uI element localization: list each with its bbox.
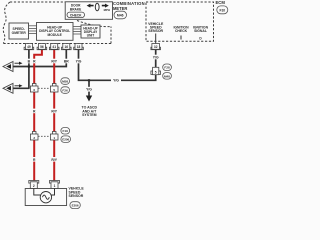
combination meter outline xyxy=(3,2,111,44)
connector F26 xyxy=(61,87,70,94)
wire label Y/G top xyxy=(75,59,83,64)
svg-text:E206: E206 xyxy=(62,138,69,142)
page connector arrow 2 xyxy=(3,83,13,93)
dashed link lower junction xyxy=(38,135,50,137)
wire label BR xyxy=(63,59,69,64)
svg-text:METER: METER xyxy=(113,6,127,11)
sensor pin 2 xyxy=(29,181,39,189)
svg-text:R/Y: R/Y xyxy=(51,158,57,162)
svg-text:41: 41 xyxy=(52,45,56,49)
svg-text:OMETER: OMETER xyxy=(12,31,27,35)
svg-text:6: 6 xyxy=(33,88,35,92)
wire R lower xyxy=(33,140,35,182)
svg-text:M46: M46 xyxy=(117,14,124,18)
wire label R/Y low xyxy=(50,157,58,162)
svg-text:E206: E206 xyxy=(72,204,79,208)
svg-text:32: 32 xyxy=(154,45,158,49)
svg-text:56: 56 xyxy=(40,45,44,49)
svg-text:1: 1 xyxy=(53,136,55,140)
head-up display control module xyxy=(37,23,74,41)
svg-text:BRAKE: BRAKE xyxy=(70,7,81,11)
sensor symbol xyxy=(40,192,51,203)
vehicle speed sensor label xyxy=(69,187,85,199)
junction connector R upper xyxy=(30,84,38,93)
ECM ignition check label xyxy=(173,25,189,32)
junction connector R/Y upper xyxy=(50,84,58,93)
wire label Y/G ecm xyxy=(152,55,160,60)
page connector arrow 1 xyxy=(3,62,13,72)
meter pin 56 xyxy=(37,44,47,50)
svg-text:Y/G: Y/G xyxy=(86,88,92,92)
svg-text:SYSTEM: SYSTEM xyxy=(82,113,96,117)
wire label Y/G branch xyxy=(85,87,93,92)
svg-text:F28: F28 xyxy=(164,66,170,70)
svg-text:UNIT: UNIT xyxy=(87,33,94,37)
svg-text:5: 5 xyxy=(53,88,55,92)
svg-text:BR: BR xyxy=(64,59,69,63)
inline connector ECM wire xyxy=(151,67,161,74)
meter pin 41 xyxy=(49,44,59,50)
svg-text:SIGNAL: SIGNAL xyxy=(194,29,207,33)
wire R/Y upper xyxy=(53,50,55,132)
dashed link upper junction xyxy=(38,87,50,89)
svg-text:2: 2 xyxy=(33,184,35,188)
ECM ignition signal label xyxy=(193,25,209,32)
connector E206 sensor xyxy=(70,202,80,209)
head-up display unit xyxy=(81,25,100,38)
ECM vss stub xyxy=(155,34,157,42)
svg-text:SENSOR: SENSOR xyxy=(69,194,84,198)
connector F28 xyxy=(163,64,172,71)
svg-text:CHECK: CHECK xyxy=(70,14,82,18)
svg-text:Y/G: Y/G xyxy=(76,59,82,63)
meter pin 18 xyxy=(74,44,84,50)
bus wires speedometer to control module xyxy=(29,26,37,34)
svg-text:Y/G: Y/G xyxy=(113,79,119,83)
svg-text:R/Y: R/Y xyxy=(51,109,57,113)
wire R/Y lower xyxy=(53,140,55,182)
wire label R mid xyxy=(32,109,37,114)
svg-text:MPH: MPH xyxy=(104,8,110,12)
meter pin 49 xyxy=(24,44,34,50)
wire label R low xyxy=(32,157,37,162)
svg-text:2: 2 xyxy=(33,136,35,140)
junction dot Y/G xyxy=(88,79,90,81)
wire Y/G branch to ASCD xyxy=(88,80,90,96)
to ASCD label xyxy=(82,106,98,118)
connector E206 xyxy=(61,136,71,143)
wire R upper xyxy=(34,50,42,132)
ECM box xyxy=(146,2,214,41)
connector M48 xyxy=(163,73,172,80)
wire label Y/G horizontal xyxy=(111,78,121,84)
junction dot B/BR xyxy=(28,65,30,67)
svg-text:F26: F26 xyxy=(62,89,68,93)
wire label R/Y top xyxy=(50,59,58,64)
wire BR to arrow line xyxy=(12,50,66,67)
sensor internal wires xyxy=(34,189,41,196)
svg-text:M58: M58 xyxy=(62,80,68,84)
connector F10 xyxy=(217,6,228,14)
svg-text:R/Y: R/Y xyxy=(51,59,57,63)
svg-text:5: 5 xyxy=(155,70,157,74)
connector F19 xyxy=(61,128,70,135)
turn indicator right arrow xyxy=(102,4,109,8)
direction arrow 1 xyxy=(15,62,20,64)
turn indicator left arrow xyxy=(87,4,94,8)
arrow2 line xyxy=(12,87,29,89)
wire label R/Y mid xyxy=(50,109,58,114)
vehicle speed sensor box xyxy=(25,189,66,206)
wire B xyxy=(28,50,30,89)
speedometer xyxy=(9,23,29,39)
svg-text:18: 18 xyxy=(77,45,81,49)
svg-text:M48: M48 xyxy=(164,74,170,78)
connector M58 xyxy=(61,78,70,85)
connector M46 xyxy=(114,11,127,19)
head-up display projection box xyxy=(65,2,112,20)
speed digit 0 xyxy=(95,3,99,11)
direction arrow 2 xyxy=(15,85,20,87)
meter pin 16 xyxy=(62,44,72,50)
sensor pin 1 xyxy=(50,181,60,189)
ECM vehicle speed sensor label xyxy=(148,22,164,33)
ECM ignition check stub xyxy=(180,36,182,40)
svg-text:Y/G: Y/G xyxy=(153,55,159,59)
svg-text:MODULE: MODULE xyxy=(48,33,63,37)
wire label R top xyxy=(32,59,37,64)
svg-text:F10: F10 xyxy=(219,9,225,13)
ECM pin 32 xyxy=(151,41,161,49)
wire Y/G meter xyxy=(79,50,156,81)
svg-text:16: 16 xyxy=(65,45,69,49)
wire label B xyxy=(27,59,32,64)
svg-text:49: 49 xyxy=(27,45,31,49)
junction connector R lower xyxy=(30,132,38,141)
svg-text:F19: F19 xyxy=(63,129,69,133)
svg-text:CHECK: CHECK xyxy=(175,29,188,33)
svg-text:1: 1 xyxy=(54,184,56,188)
svg-text:SENSOR: SENSOR xyxy=(148,29,163,33)
bus wires control module to display unit xyxy=(73,27,81,35)
combination meter label xyxy=(113,1,145,11)
svg-text:ECM: ECM xyxy=(216,0,226,5)
junction connector R/Y lower xyxy=(50,132,58,141)
